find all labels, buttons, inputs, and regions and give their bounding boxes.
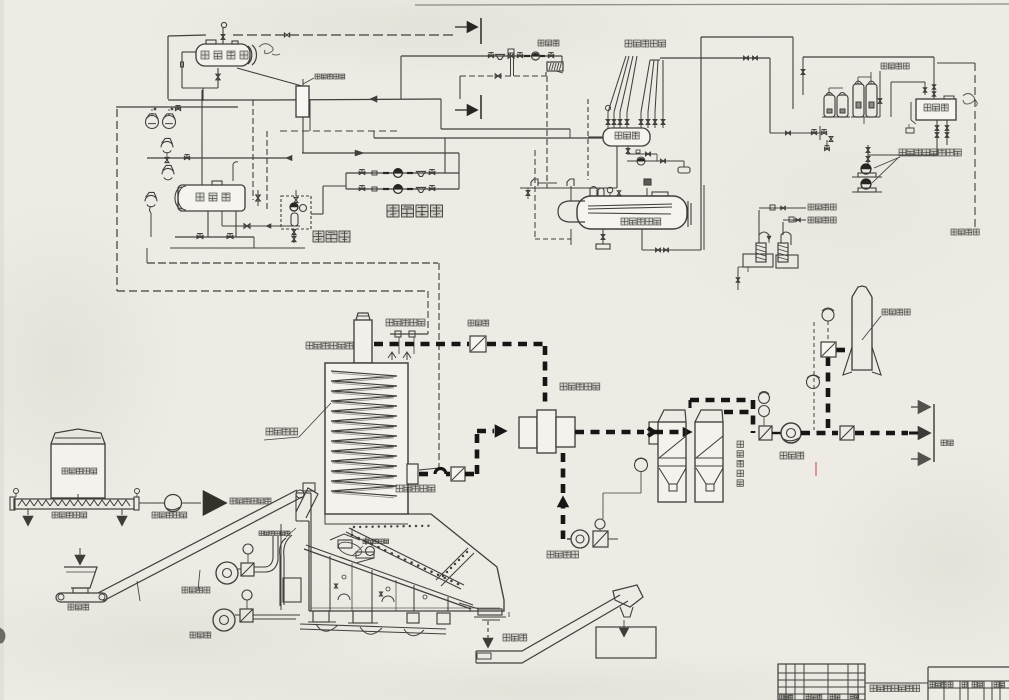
label oil inlet: [396, 485, 435, 492]
flue duct damper2 up to mixing chamber: [465, 425, 507, 474]
label to sand powder nozzle: [230, 498, 271, 504]
dust collector inlet plenum: [649, 422, 659, 444]
wire storage tank bottom piping: [170, 211, 305, 248]
left edge dark mark: [0, 628, 5, 643]
flue duct up to ignition stack: [828, 350, 851, 431]
wire fenqigang drain and steam trap: [626, 146, 690, 173]
wire tank outlet to injection pump: [222, 211, 300, 228]
steam main bridge to right: [701, 37, 793, 109]
label ignition chimney: [862, 309, 910, 340]
dust collector unit 1: [658, 410, 686, 502]
feed hopper (shangliaoji): [64, 567, 97, 593]
handwritten mark right of tank: [963, 94, 977, 107]
off-page connector arrow bottom: [455, 95, 481, 119]
emergency discharge chimney: [354, 313, 372, 363]
softener large vessel pair: [851, 72, 880, 124]
arrow between units: [683, 422, 692, 444]
wire y=129 mid: [441, 99, 570, 138]
oil-gas separator: [296, 79, 309, 153]
flue duct damper to corner: [487, 344, 546, 408]
wire verticals to storage tank: [202, 90, 267, 210]
label feed water sampling: [801, 217, 836, 223]
label production water top: [878, 63, 926, 117]
sand powder fan: [139, 495, 201, 512]
primary air fan: [567, 519, 618, 548]
wire pump connectors: [346, 138, 459, 189]
sample cooler bases: [736, 254, 798, 290]
tank: expansion oil tank (pengzhang youxiang): [196, 40, 256, 66]
label feeder: [68, 604, 89, 610]
label oil outlet: [386, 319, 425, 326]
grate incline lines: [304, 528, 473, 609]
sample cooler 1: [756, 205, 790, 262]
makeup air fan (bufengfengji): [216, 536, 278, 584]
label steam generator feed pump: [899, 149, 961, 156]
grate right elbow dots: [436, 548, 474, 586]
label sand powder fan: [152, 512, 187, 518]
instrument dome 2: [162, 165, 174, 179]
label air damper: [468, 320, 489, 326]
title block center: [865, 664, 928, 700]
stack outlet connector: [909, 400, 934, 466]
tank: soft water tank: [906, 96, 956, 133]
flue duct chimney to damper: [374, 342, 469, 347]
interior door arcs: [335, 575, 428, 602]
wire pump header bottom y=189: [346, 185, 459, 194]
steam header risers right group: [639, 60, 665, 128]
drum bottom drain: [596, 229, 610, 249]
flue gas mixing chamber: [519, 410, 575, 453]
flue bypass over collector: [648, 400, 753, 436]
air damper box 1 (tiaofengmen): [470, 336, 486, 352]
label makeup air fan: [182, 587, 210, 593]
damper box after ID fan: [840, 426, 854, 440]
label sand powder silo: [62, 468, 97, 474]
injection pump assembly (zhuyoubeng): [281, 186, 346, 243]
grate hole dots diagonal: [351, 534, 460, 586]
air damper box 2: [451, 467, 465, 481]
compartment dividers: [311, 556, 500, 611]
dust collector unit 2: [695, 410, 723, 502]
tank: oil storage tank (chuyouxiang): [175, 181, 245, 211]
flue duct furnace port to damper2: [419, 469, 450, 474]
wire production water right down: [974, 63, 976, 228]
valve between tanks x=258: [256, 190, 261, 206]
damper box ignition stack: [821, 342, 836, 357]
wire separator line y=153 to pumps: [302, 150, 459, 156]
blower fan (gufengji): [213, 590, 300, 631]
instrument TE near collector: [603, 458, 648, 519]
label multi-tube dust collector: [737, 441, 744, 486]
label injection pump: [313, 231, 350, 242]
feeder conveyor: [56, 593, 107, 602]
instrument dome 1: [161, 138, 173, 160]
instrument circles above damper box: [759, 392, 770, 427]
primary air duct vertical: [557, 453, 568, 539]
label grate nozzle strip: [352, 539, 389, 556]
drum top fittings: [590, 179, 668, 196]
slag conveyor: [476, 585, 643, 663]
wire return drop x=547: [520, 76, 547, 188]
steam header risers left group: [605, 56, 637, 128]
conveyor head chute: [296, 483, 318, 518]
left boundary dashed: [117, 109, 428, 291]
discharge triangle left: [23, 509, 33, 526]
ignition chimney (rocket shape): [843, 286, 881, 375]
slag bin: [596, 620, 656, 658]
instrument TE on dashed line: [807, 322, 821, 430]
wire steam submain y=58: [660, 56, 770, 133]
wire y=138: [374, 131, 617, 188]
red correction mark: [815, 462, 817, 476]
windbox manifold: [300, 624, 446, 636]
instrument T above ignition damper: [822, 308, 834, 342]
feed water pump set: [852, 157, 900, 192]
title block right table: [928, 667, 1009, 700]
furnace base outline: [296, 493, 504, 611]
label emergency discharge chimney: [306, 342, 353, 349]
label screw feeder: [52, 512, 87, 518]
label heat user: [538, 40, 559, 46]
furnace top oil outlet manifold: [388, 291, 428, 360]
sand powder silo: [51, 429, 105, 498]
label ID fan: [780, 452, 804, 459]
flue duct ID fan to outlet: [801, 431, 908, 436]
label steam heat users: [625, 40, 666, 47]
wire fenqigang left nozzle: [588, 99, 603, 180]
page edge faint line top: [415, 4, 1009, 5]
pressure relief label small: [259, 528, 296, 537]
wire y=131 dashed left: [280, 99, 400, 131]
tank: steam generator drum: [558, 196, 687, 229]
label outlet: [941, 440, 953, 446]
drum left instrument piping: [526, 150, 574, 245]
wire left riser x=168: [167, 36, 169, 99]
drum gauge glass right: [688, 201, 691, 227]
furnace body with coil: [325, 363, 408, 514]
wire soft water tank outlet: [866, 120, 949, 165]
label furnace water sampling: [790, 204, 836, 210]
wire heat user return y=76: [460, 72, 546, 99]
label primary air fan: [547, 551, 579, 558]
left air duct curves: [280, 524, 301, 610]
label oil-gas separator: [303, 74, 345, 84]
wire valve drop x=167: [147, 155, 292, 163]
wire tank left loop: [181, 52, 219, 101]
wire valve manifold y=133: [770, 126, 833, 151]
grate hole dots top row: [353, 525, 430, 529]
wire pump header top y=173: [346, 169, 459, 178]
nozzle arrow (to sand powder nozzle): [203, 491, 227, 516]
ID fan (yinfengji): [772, 423, 801, 443]
label flue gas mixing chamber: [560, 383, 600, 390]
label furnace (daoreyoulu): [264, 403, 331, 440]
instrument LG pair: [146, 109, 176, 129]
sample cooler 2: [778, 217, 801, 262]
feed hopper arrow: [75, 548, 85, 565]
handwritten mark near tank: [259, 44, 280, 55]
slag gate platform: [459, 603, 509, 620]
label production water bottom: [951, 229, 979, 235]
wire storage tank breather: [233, 162, 238, 181]
title block left table: [778, 664, 865, 700]
off-page connector arrow top: [455, 18, 481, 44]
screw feeder trough: [10, 489, 140, 511]
wire top right main y=57: [803, 57, 975, 99]
wire horizontal y=109: [116, 106, 238, 111]
instrument dome 3: [145, 192, 157, 237]
label blower: [190, 632, 211, 638]
wire mid line y=263: [147, 248, 438, 263]
wire heat user supply y=56: [401, 49, 562, 99]
label slag discharger: [503, 634, 527, 641]
damper box before ID fan: [759, 426, 772, 440]
discharge triangle right: [117, 509, 127, 526]
inclined conveyor to furnace: [98, 490, 304, 601]
flue duct chamber to dust collector: [575, 430, 644, 435]
wire softener drop x=803: [801, 57, 805, 95]
slag drop dashed arrow: [483, 621, 493, 648]
spreader feeder cluster: [330, 528, 375, 563]
drum feedwater inlet piping: [642, 37, 704, 252]
wire sloped pipe tank to separator: [237, 68, 302, 86]
furnace base pedestals: [308, 611, 450, 624]
label main circulation pumps: [387, 205, 443, 217]
oil inlet pipe x=439: [419, 263, 439, 470]
wire horizontal y=99: [168, 96, 441, 102]
wire top boundary y=36: [168, 33, 455, 37]
furnace flue port box: [407, 464, 418, 484]
expansion oil tank vent: [221, 22, 226, 44]
wire tank drain: [216, 68, 220, 88]
softener small vessel pair: [822, 88, 850, 117]
heat user exchanger hatched box: [547, 62, 563, 73]
tank: steam distribution cylinder (fenqigang): [603, 128, 650, 146]
